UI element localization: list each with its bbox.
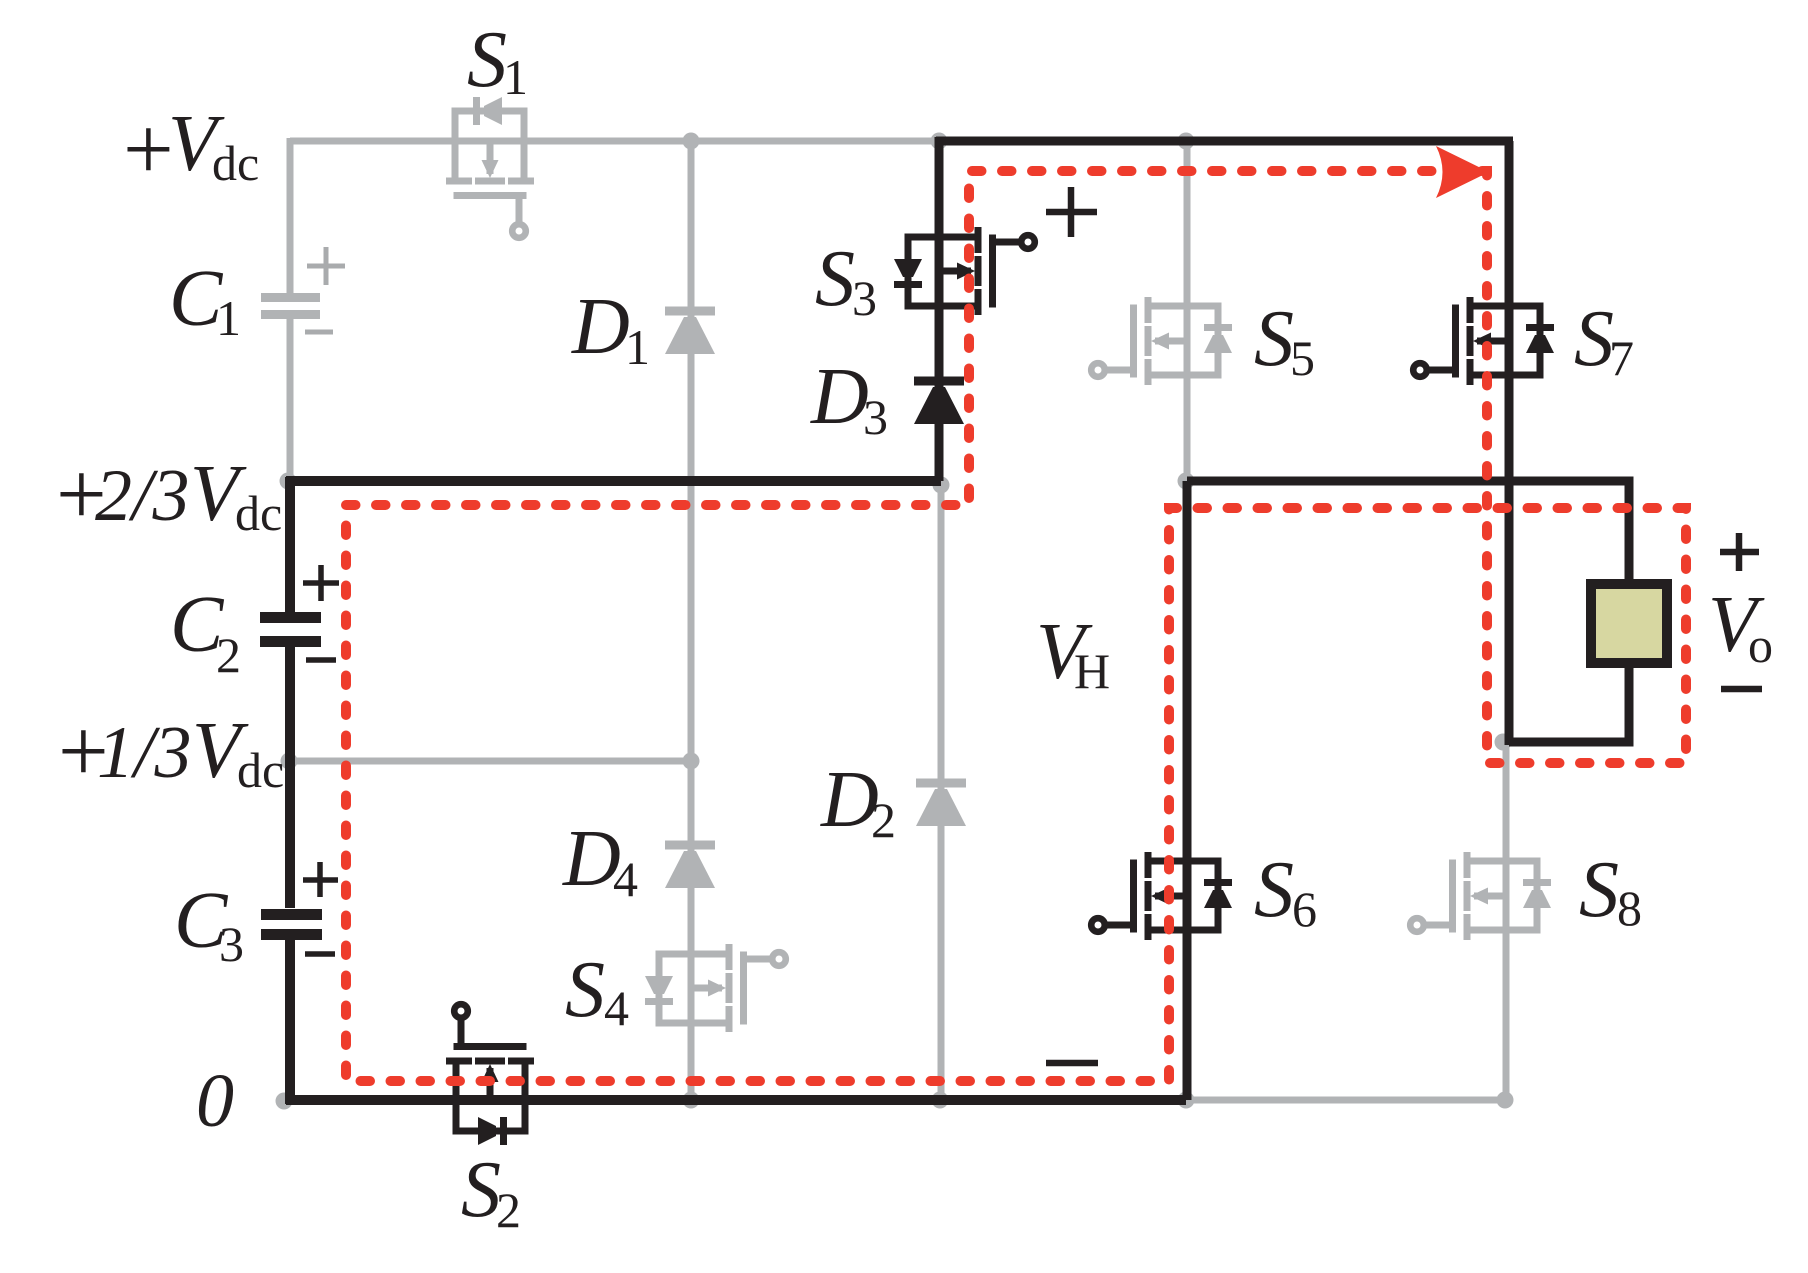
svg-text:o: o <box>1748 617 1773 673</box>
svg-text:1: 1 <box>503 49 528 105</box>
svg-text:+: + <box>123 100 174 199</box>
svg-text:5: 5 <box>1290 330 1315 386</box>
svg-text:4: 4 <box>604 980 629 1036</box>
svg-text:8: 8 <box>1617 880 1642 936</box>
svg-text:D: D <box>810 353 869 441</box>
svg-text:S: S <box>1254 295 1294 383</box>
svg-text:2: 2 <box>216 627 241 683</box>
svg-text:D: D <box>820 756 879 844</box>
svg-text:2: 2 <box>871 792 896 848</box>
svg-text:S: S <box>1254 846 1294 934</box>
svg-text:S: S <box>815 235 855 323</box>
svg-text:dc: dc <box>237 742 284 798</box>
svg-text:3: 3 <box>852 270 877 326</box>
svg-text:S: S <box>467 16 507 104</box>
svg-text:dc: dc <box>235 485 282 541</box>
svg-text:2/3: 2/3 <box>95 455 190 537</box>
svg-text:S: S <box>1574 295 1614 383</box>
svg-text:6: 6 <box>1292 881 1317 937</box>
svg-text:D: D <box>571 283 630 371</box>
svg-text:7: 7 <box>1609 330 1634 386</box>
svg-text:1/3: 1/3 <box>97 712 192 794</box>
svg-text:dc: dc <box>212 135 259 191</box>
svg-text:S: S <box>461 1146 501 1234</box>
svg-text:S: S <box>565 946 605 1034</box>
svg-text:3: 3 <box>219 916 244 972</box>
svg-text:H: H <box>1074 643 1110 699</box>
svg-text:D: D <box>562 815 621 903</box>
svg-text:2: 2 <box>496 1182 521 1238</box>
svg-text:0: 0 <box>196 1059 234 1143</box>
svg-text:4: 4 <box>613 851 638 907</box>
svg-text:1: 1 <box>216 290 241 346</box>
svg-text:S: S <box>1579 846 1619 934</box>
svg-text:1: 1 <box>625 319 650 375</box>
svg-text:3: 3 <box>863 389 888 445</box>
